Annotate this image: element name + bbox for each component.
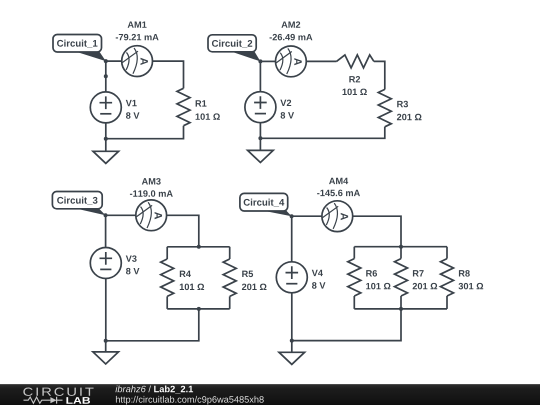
resistor R8 <box>441 259 454 296</box>
wire <box>354 308 447 310</box>
ammeter AM2 name label <box>281 21 300 27</box>
resistor R2 name label <box>349 76 360 82</box>
voltage source V4 <box>276 262 307 293</box>
wire <box>291 216 293 262</box>
resistor R3 name label <box>397 101 408 108</box>
footer title text <box>115 385 193 393</box>
resistor R3 <box>378 89 391 126</box>
wire <box>353 216 401 247</box>
node Circuit_3 flag <box>52 192 105 216</box>
resistor R8 value label <box>459 283 484 290</box>
wire <box>167 215 199 247</box>
resistor R7 name label <box>413 270 424 276</box>
wire <box>167 246 230 248</box>
wire <box>260 127 384 139</box>
wire <box>292 215 322 217</box>
ammeter AM1 name label <box>128 21 147 27</box>
wire <box>259 61 261 92</box>
wire <box>105 279 107 341</box>
resistor R6 name label <box>366 270 377 277</box>
wire <box>105 215 107 247</box>
wire <box>105 61 107 92</box>
junction <box>197 245 201 249</box>
wire <box>354 246 447 248</box>
junction <box>197 307 201 311</box>
source V2 value label <box>281 112 294 119</box>
junction node Circuit_1 <box>104 59 108 63</box>
resistor R1 value label <box>196 113 220 120</box>
wire <box>106 60 122 62</box>
voltage source V3 <box>90 248 121 279</box>
wire <box>106 214 136 216</box>
junction node Circuit_3 <box>104 213 108 217</box>
resistor R5 <box>223 259 236 296</box>
source V3 name label <box>126 255 137 262</box>
resistor R1 <box>177 88 190 125</box>
ammeter AM3 <box>136 200 167 231</box>
wire <box>105 123 107 139</box>
wire <box>291 293 293 341</box>
wire <box>166 247 168 259</box>
wire <box>306 60 336 62</box>
resistor R1 name label <box>196 100 207 106</box>
voltage source V2 <box>245 92 276 123</box>
ground GND1 <box>93 139 119 164</box>
junction <box>104 137 108 141</box>
ammeter AM4 reading label <box>317 190 360 197</box>
voltage source V1 <box>90 92 121 123</box>
resistor R5 value label <box>242 284 267 291</box>
resistor R8 name label <box>459 270 470 277</box>
resistor R2 <box>337 55 374 68</box>
ammeter AM3 name label <box>142 178 161 185</box>
ground GND4 <box>279 341 305 365</box>
ammeter AM2 reading label <box>270 34 313 41</box>
ammeter AM1 reading label <box>116 34 159 41</box>
ammeter AM4 <box>322 201 353 232</box>
wire <box>106 126 184 139</box>
resistor R4 <box>161 259 174 296</box>
wire <box>400 247 402 259</box>
resistor R3 value label <box>397 114 422 121</box>
CircuitLab logo <box>23 388 93 404</box>
wire <box>292 309 401 341</box>
wire <box>353 247 355 259</box>
source V4 name label <box>312 270 323 276</box>
wire <box>166 296 168 309</box>
wire <box>229 247 231 259</box>
wire <box>259 123 261 139</box>
source V3 value label <box>126 268 139 275</box>
node Circuit_4 flag <box>240 193 292 216</box>
resistor R6 value label <box>366 283 390 290</box>
wire <box>374 61 385 89</box>
wire <box>446 247 448 259</box>
junction <box>290 339 294 343</box>
ammeter AM1 <box>122 46 153 77</box>
resistor R6 <box>348 259 361 296</box>
resistor R5 name label <box>242 271 253 277</box>
junction <box>104 339 108 343</box>
junction node Circuit_2 <box>258 59 262 63</box>
junction <box>104 74 108 78</box>
wire <box>400 296 402 309</box>
junction <box>258 136 262 140</box>
source V2 name label <box>280 100 291 106</box>
footer url text <box>116 396 264 405</box>
wire <box>446 296 448 309</box>
ammeter AM2 <box>276 46 307 77</box>
resistor R4 name label <box>180 271 191 277</box>
ground GND2 <box>248 138 274 162</box>
ground GND3 <box>93 341 119 364</box>
wire <box>106 309 199 341</box>
resistor R4 value label <box>180 284 204 291</box>
ammeter AM4 name label <box>329 178 348 184</box>
wire <box>153 61 184 88</box>
wire <box>229 296 231 309</box>
node Circuit_2 flag <box>208 35 260 62</box>
node Circuit_1 flag <box>53 35 106 62</box>
resistor R2 value label <box>343 89 367 96</box>
wire <box>353 296 355 309</box>
resistor R7 <box>395 259 408 296</box>
wire <box>167 308 230 310</box>
source V4 value label <box>312 282 325 289</box>
junction node Circuit_4 <box>290 214 294 218</box>
junction <box>399 245 403 249</box>
ammeter AM3 reading label <box>130 190 173 197</box>
source V1 name label <box>126 100 137 106</box>
source V1 value label <box>126 112 139 119</box>
resistor R7 value label <box>413 283 438 290</box>
junction <box>399 307 403 311</box>
wire <box>260 60 275 62</box>
